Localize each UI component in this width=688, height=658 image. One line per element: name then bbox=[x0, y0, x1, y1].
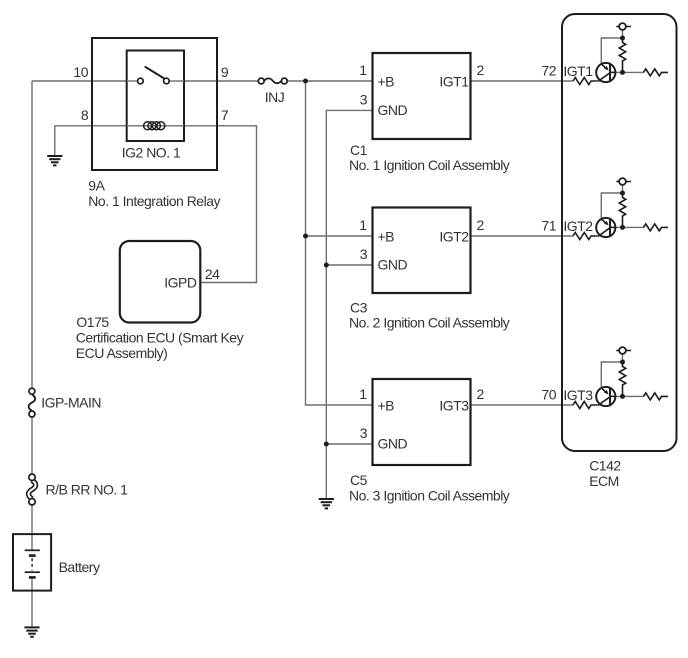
wire: power symbol drop bbox=[622, 354, 624, 362]
wire: GND branch coil C5 bbox=[326, 443, 372, 445]
wire: IGT1 row coil C1 to ECM bbox=[471, 80, 574, 82]
wire: pull-up node to transistor collector (L wire) bbox=[601, 193, 622, 218]
svg-text:IGT2: IGT2 bbox=[439, 229, 469, 245]
battery plates bbox=[25, 550, 40, 577]
transistor Q (IGT1 driver) bbox=[596, 63, 615, 82]
svg-text:+B: +B bbox=[378, 229, 395, 245]
svg-text:3: 3 bbox=[360, 246, 368, 262]
junction: collector output node bbox=[620, 394, 625, 399]
battery box bbox=[13, 534, 51, 591]
Certification ECU box O175 bbox=[120, 241, 201, 323]
wire: +B branch to coil C3 pin 1 bbox=[306, 235, 373, 237]
fuse INJ bbox=[258, 78, 287, 84]
wire: R/B RR NO. 1 to battery bbox=[31, 505, 33, 551]
svg-text:No. 3 Ignition Coil Assembly: No. 3 Ignition Coil Assembly bbox=[349, 487, 510, 503]
ground of coil GND bus bbox=[319, 499, 334, 508]
svg-text:GND: GND bbox=[378, 436, 408, 452]
svg-text:3: 3 bbox=[360, 425, 368, 441]
junction: +B branch coil C3 bbox=[303, 234, 308, 239]
resistor: output resistor bbox=[644, 69, 669, 76]
svg-text:1: 1 bbox=[359, 217, 367, 233]
svg-text:9A: 9A bbox=[88, 178, 105, 194]
svg-text:10: 10 bbox=[73, 64, 88, 80]
svg-text:C1: C1 bbox=[350, 142, 368, 158]
svg-text:IGT2: IGT2 bbox=[563, 218, 593, 234]
svg-text:IGT3: IGT3 bbox=[439, 398, 469, 414]
svg-text:Battery: Battery bbox=[59, 559, 100, 575]
junction: GND branch coil C3 bbox=[324, 263, 329, 268]
svg-text:2: 2 bbox=[477, 386, 485, 402]
svg-text:70: 70 bbox=[541, 387, 556, 403]
wire: emitter row to output resistor bbox=[612, 395, 644, 397]
svg-text:2: 2 bbox=[477, 62, 485, 78]
svg-text:7: 7 bbox=[221, 107, 229, 123]
svg-text:IGT1: IGT1 bbox=[563, 63, 593, 79]
svg-text:IGT3: IGT3 bbox=[563, 387, 593, 403]
svg-text:IGT1: IGT1 bbox=[439, 74, 469, 90]
wire: relay pin 7 to IGPD pin 24 bbox=[184, 126, 257, 283]
resistor: pull-up resistor bbox=[619, 362, 625, 396]
svg-text:GND: GND bbox=[378, 102, 408, 118]
svg-text:9: 9 bbox=[221, 64, 229, 80]
ECM box C142 bbox=[562, 14, 677, 451]
wire: emitter row to output resistor bbox=[612, 71, 644, 73]
transistor Q (IGT2 driver) bbox=[596, 218, 615, 237]
resistor: pull-up resistor bbox=[619, 38, 625, 72]
wire: relay contact row inside inner box bbox=[127, 80, 139, 82]
power feed symbol (circle with bar) bbox=[616, 350, 631, 352]
relay coil winding bbox=[144, 122, 165, 130]
wire: IGT2 row coil C3 to ECM bbox=[471, 235, 574, 237]
svg-text:R/B RR NO. 1: R/B RR NO. 1 bbox=[46, 482, 129, 498]
svg-text:No. 1 Ignition Coil Assembly: No. 1 Ignition Coil Assembly bbox=[349, 157, 510, 173]
wire: INJ fuse to coil C1 pin 1 bbox=[286, 80, 373, 82]
ignition coil assembly C3 box bbox=[373, 208, 471, 294]
junction: pull-up top node bbox=[620, 360, 625, 365]
wire: GND bus vertical down to ground bbox=[326, 110, 372, 499]
relay IG2 NO. 1 outer box (No. 1 Integration Relay) bbox=[92, 38, 217, 170]
wire: IGP-MAIN to R/B RR NO. 1 bbox=[31, 417, 33, 475]
wire: relay pin 9 to INJ fuse bbox=[168, 80, 259, 82]
wire: power symbol drop bbox=[622, 185, 624, 193]
svg-text:+B: +B bbox=[378, 398, 395, 414]
junction: collector output node bbox=[620, 225, 625, 230]
svg-text:INJ: INJ bbox=[265, 89, 285, 105]
junction: INJ output node bbox=[303, 79, 308, 84]
svg-text:ECU Assembly): ECU Assembly) bbox=[76, 345, 168, 361]
svg-text:+B: +B bbox=[378, 74, 395, 90]
svg-text:71: 71 bbox=[541, 218, 556, 234]
resistor: base input resistor IGT3 bbox=[573, 402, 598, 409]
power feed symbol (circle with bar) bbox=[616, 26, 631, 28]
svg-text:IGP-MAIN: IGP-MAIN bbox=[41, 395, 101, 411]
svg-text:C142: C142 bbox=[589, 458, 621, 474]
junction: GND branch coil C5 bbox=[324, 442, 329, 447]
svg-text:ECM: ECM bbox=[589, 473, 619, 489]
svg-text:No. 1 Integration Relay: No. 1 Integration Relay bbox=[88, 193, 220, 209]
svg-text:No. 2 Ignition Coil Assembly: No. 2 Ignition Coil Assembly bbox=[349, 315, 510, 331]
svg-text:3: 3 bbox=[360, 91, 368, 107]
connector IGP-MAIN bbox=[29, 388, 36, 417]
transistor Q (IGT3 driver) bbox=[596, 387, 615, 406]
wire: battery negative lead to ground bbox=[31, 577, 33, 627]
resistor: output resistor bbox=[644, 393, 669, 400]
wire: relay coil row inside inner box bbox=[127, 125, 184, 127]
wire: +B feed vertical from INJ junction to coils bbox=[306, 81, 373, 405]
svg-text:8: 8 bbox=[81, 107, 89, 123]
resistor: output resistor bbox=[644, 224, 669, 231]
svg-text:72: 72 bbox=[541, 63, 556, 79]
wire: main +B row from left vertical to relay switch bbox=[32, 80, 139, 82]
resistor: pull-up resistor bbox=[619, 193, 625, 227]
relay inner box bbox=[127, 51, 184, 142]
wire: GND branch coil C3 bbox=[326, 264, 372, 266]
fusible link R/B RR NO. 1 bbox=[28, 480, 35, 499]
resistor: base input resistor IGT1 bbox=[573, 78, 598, 85]
junction: pull-up top node bbox=[620, 36, 625, 41]
resistor: base input resistor IGT2 bbox=[573, 233, 598, 240]
ground under battery bbox=[24, 627, 39, 636]
wire: pull-up node to transistor collector (L wire) bbox=[601, 362, 622, 387]
wire: relay coil row, pin 8 to ground drop bbox=[55, 126, 184, 156]
junction: collector output node bbox=[620, 70, 625, 75]
svg-text:IGPD: IGPD bbox=[164, 275, 197, 291]
ignition coil assembly C1 box bbox=[373, 53, 471, 139]
svg-text:C5: C5 bbox=[350, 472, 368, 488]
ground under relay pin 8 bbox=[47, 156, 62, 165]
svg-text:GND: GND bbox=[378, 257, 408, 273]
svg-text:IG2 NO. 1: IG2 NO. 1 bbox=[122, 145, 181, 161]
power feed symbol (circle with bar) bbox=[616, 181, 631, 183]
svg-text:Certification ECU (Smart Key: Certification ECU (Smart Key bbox=[76, 330, 244, 346]
wire: pull-up node to transistor collector (L wire) bbox=[601, 38, 622, 63]
wire: IGT3 row coil C5 to ECM bbox=[471, 404, 574, 406]
relay switch contact terminals bbox=[138, 78, 144, 84]
svg-text:24: 24 bbox=[205, 266, 220, 282]
ignition coil assembly C5 box bbox=[373, 379, 471, 465]
svg-text:1: 1 bbox=[359, 62, 367, 78]
svg-text:1: 1 bbox=[359, 386, 367, 402]
junction: pull-up top node bbox=[620, 191, 625, 196]
wire: power symbol drop bbox=[622, 30, 624, 38]
wire: battery feed, left vertical from relay pin 10 down to IGP-MAIN bbox=[31, 81, 33, 389]
wire: emitter row to output resistor bbox=[612, 226, 644, 228]
svg-text:2: 2 bbox=[477, 217, 485, 233]
svg-text:C3: C3 bbox=[350, 300, 368, 316]
relay switch blade bbox=[145, 67, 166, 80]
svg-text:O175: O175 bbox=[76, 314, 109, 330]
